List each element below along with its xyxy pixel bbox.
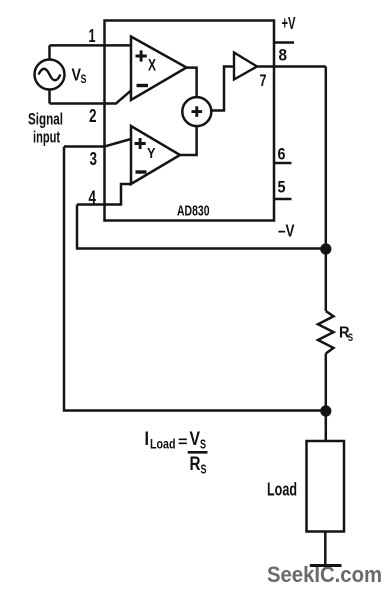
wire source bottom lead bbox=[48, 90, 51, 104]
svg-text:Signal: Signal bbox=[28, 110, 63, 129]
IC U1 AD830 outline bbox=[105, 21, 275, 221]
svg-text:S: S bbox=[348, 332, 353, 344]
ground bbox=[310, 564, 342, 567]
node B (sense node) bbox=[320, 405, 331, 416]
wire pin 1 input bbox=[50, 44, 132, 47]
svg-text:Load: Load bbox=[150, 437, 176, 452]
svg-text:1: 1 bbox=[89, 26, 96, 46]
op-amp Y (input stage) bbox=[131, 126, 180, 184]
svg-text:4: 4 bbox=[89, 188, 97, 208]
wire pin 3 input bbox=[64, 139, 131, 147]
wire X output to summing junction bbox=[187, 68, 197, 98]
pin 8 tick bbox=[274, 41, 294, 44]
wire buffer output pin 8 bbox=[257, 65, 326, 68]
svg-text:6: 6 bbox=[278, 145, 286, 164]
svg-text:Load: Load bbox=[267, 479, 297, 500]
label Signal input bbox=[28, 110, 63, 147]
label VS bbox=[72, 65, 87, 87]
wire summing junction to buffer bbox=[211, 67, 234, 111]
svg-text:Y: Y bbox=[147, 145, 156, 162]
svg-text:V: V bbox=[190, 429, 201, 450]
svg-text:input: input bbox=[33, 128, 60, 147]
voltage source VS bbox=[35, 60, 65, 90]
pin 5 tick bbox=[274, 198, 292, 201]
load bbox=[307, 441, 345, 532]
svg-text:3: 3 bbox=[90, 149, 98, 169]
svg-text:5: 5 bbox=[278, 178, 286, 197]
wire load to ground bbox=[324, 532, 327, 566]
wire sense feedback to pin 3 bbox=[64, 147, 326, 411]
wire resistor to load bbox=[325, 354, 328, 442]
label RS bbox=[339, 325, 353, 345]
svg-text:S: S bbox=[81, 72, 87, 86]
node A (feedback node) bbox=[320, 243, 331, 254]
resistor RS bbox=[318, 311, 334, 354]
summing junction bbox=[182, 97, 211, 126]
svg-text:–V: –V bbox=[278, 221, 295, 241]
svg-text:=: = bbox=[178, 434, 188, 451]
wire Y output to summing junction bbox=[180, 126, 197, 155]
formula I_Load = V_S / R_S bbox=[145, 429, 208, 477]
wire pin 4 input bbox=[77, 184, 131, 205]
wire source top lead bbox=[48, 45, 51, 59]
svg-text:S: S bbox=[201, 462, 207, 477]
pin 6 tick bbox=[274, 162, 292, 165]
output buffer amplifier bbox=[234, 53, 257, 80]
svg-text:S: S bbox=[200, 437, 206, 452]
wire feedback to pin 4 bbox=[77, 205, 326, 249]
svg-text:X: X bbox=[148, 56, 156, 75]
svg-text:2: 2 bbox=[89, 106, 97, 126]
svg-text:+V: +V bbox=[282, 13, 296, 33]
svg-text:AD830: AD830 bbox=[177, 204, 210, 220]
svg-text:R: R bbox=[190, 454, 201, 475]
svg-text:8: 8 bbox=[279, 46, 288, 65]
wire output down right side bbox=[325, 67, 328, 312]
wire pin 2 input bbox=[50, 91, 132, 104]
op-amp X (input stage) bbox=[131, 37, 187, 101]
svg-text:I: I bbox=[145, 429, 150, 450]
svg-text:7: 7 bbox=[260, 72, 267, 90]
